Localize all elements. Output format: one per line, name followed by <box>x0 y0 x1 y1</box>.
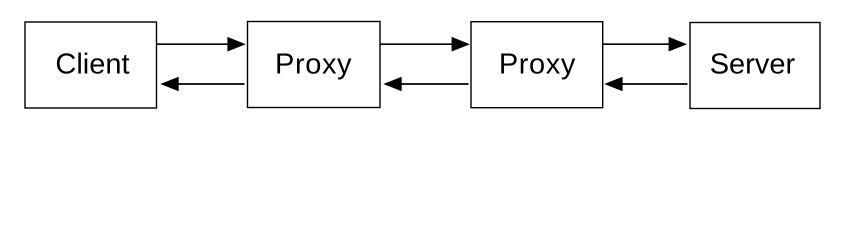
svg-text:Client: Client <box>55 49 129 81</box>
arrow Client to Proxy1 (right) <box>157 37 246 52</box>
arrow Proxy1 to Client (left) <box>160 77 244 92</box>
arrow Proxy2 to Proxy1 (left) <box>383 77 468 92</box>
svg-text:Server: Server <box>710 49 796 81</box>
arrow Proxy1 to Proxy2 (right) <box>380 37 470 52</box>
box Client <box>25 22 157 108</box>
box Server <box>690 23 820 109</box>
svg-text:Proxy: Proxy <box>275 49 352 81</box>
arrow Server to Proxy2 (left) <box>604 77 687 92</box>
box Proxy 1 <box>248 22 381 108</box>
svg-text:Proxy: Proxy <box>499 49 576 81</box>
arrow Proxy2 to Server (right) <box>603 37 687 52</box>
box Proxy 2 <box>471 22 603 108</box>
